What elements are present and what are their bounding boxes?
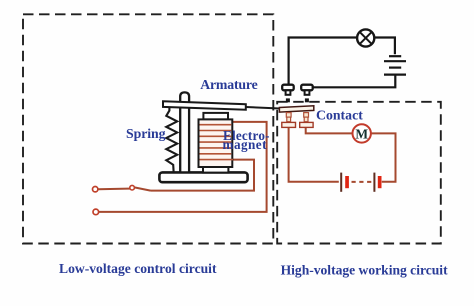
svg-text:magnet: magnet bbox=[223, 137, 268, 152]
svg-text:High-voltage working circuit: High-voltage working circuit bbox=[281, 263, 448, 278]
svg-text:Contact: Contact bbox=[316, 108, 363, 123]
svg-text:Low-voltage control circuit: Low-voltage control circuit bbox=[59, 261, 217, 276]
svg-text:Armature: Armature bbox=[200, 77, 258, 92]
svg-text:M: M bbox=[355, 127, 368, 142]
svg-text:Spring: Spring bbox=[126, 126, 166, 141]
